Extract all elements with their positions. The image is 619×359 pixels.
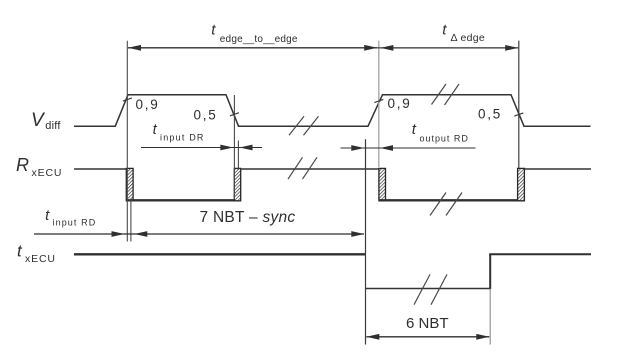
node crossing tick 0,5 second falling edge	[514, 113, 523, 116]
svg-text:t: t	[17, 242, 23, 261]
wire t_xECU rising edge	[489, 254, 491, 289]
wire t_input_DR dimension line	[141, 145, 262, 151]
node t_output_RD label	[412, 121, 469, 144]
node extension line at second falling edge (x=519)	[518, 41, 520, 168]
wire R_xECU low segment 2	[379, 199, 524, 201]
wire t_delta_edge dimension line	[380, 45, 518, 51]
node extension tick t_input_DR right (x=238)	[237, 141, 239, 171]
svg-text:output RD: output RD	[420, 134, 469, 144]
node break symbol t_xECU low segment	[414, 274, 447, 304]
node R_xECU transition bar 4	[518, 168, 525, 200]
svg-text:diff: diff	[45, 120, 61, 132]
node R_xECU transition bar 1	[126, 168, 133, 200]
wire 7_NBT_sync dimension line	[134, 231, 364, 237]
node crossing tick 0,5 first falling edge	[230, 113, 239, 116]
node break symbol V_diff low segment	[289, 116, 319, 135]
svg-text:R: R	[16, 155, 29, 175]
svg-text:Δ edge: Δ edge	[451, 32, 486, 44]
node extension line at second rising edge (x=379, gray)	[378, 41, 380, 167]
node extension line t_xECU rising edge (x=490)	[489, 289, 491, 345]
wire R_xECU high segment 1	[74, 168, 127, 170]
node extension line t_xECU falling edge (x=365)	[365, 139, 367, 344]
svg-text:input DR: input DR	[160, 133, 205, 143]
svg-text:t: t	[442, 22, 447, 39]
node t_xECU label	[17, 242, 56, 266]
node crossing tick 0,9 first rising edge	[123, 98, 132, 101]
wire 6_NBT dimension line	[366, 334, 489, 340]
svg-text:t: t	[412, 121, 417, 138]
node R_xECU label	[16, 155, 62, 179]
wire t_xECU high segment 2	[489, 253, 591, 255]
svg-text:t: t	[153, 122, 158, 138]
svg-text:xECU: xECU	[32, 167, 63, 179]
node break symbol R_xECU high segment 2	[288, 157, 317, 179]
wire t_xECU high segment 1	[74, 253, 366, 255]
node 7_NBT_sync label	[200, 209, 296, 226]
node break symbol V_diff high segment 2	[432, 84, 460, 105]
svg-text:0,5: 0,5	[478, 107, 502, 122]
svg-text:t: t	[45, 207, 50, 224]
node R_xECU transition bar 2	[234, 168, 240, 200]
node t_edge_to_edge label	[211, 22, 298, 46]
node break symbol R_xECU low segment 2	[430, 193, 462, 216]
node extension line at first falling edge (x=234)	[233, 95, 235, 199]
svg-text:0,5: 0,5	[194, 107, 218, 122]
svg-text:V: V	[31, 110, 46, 131]
wire R_xECU low segment 1	[127, 199, 241, 201]
svg-text:input RD: input RD	[53, 218, 97, 228]
node R_xECU transition bar 3	[379, 168, 386, 200]
node t_delta_edge label	[442, 22, 485, 45]
wire R_xECU high segment 3	[524, 168, 591, 170]
svg-text:edge__to__edge: edge__to__edge	[220, 34, 298, 45]
wire t_input_RD leader line	[34, 231, 364, 237]
svg-text:0,9: 0,9	[136, 97, 160, 112]
node crossing tick 0,9 second rising edge	[374, 99, 383, 102]
svg-text:t: t	[211, 22, 216, 39]
svg-text:0,9: 0,9	[388, 96, 412, 111]
node extension tick t_input_RD right (x=131)	[130, 199, 132, 242]
svg-text:6 NBT: 6 NBT	[406, 315, 449, 332]
svg-text:7 NBT – sync: 7 NBT – sync	[200, 209, 296, 226]
wire R_xECU high segment 2	[241, 168, 380, 170]
node V_diff label	[31, 110, 61, 132]
wire V_diff waveform	[74, 95, 591, 127]
node extension line at first rising edge (x=127)	[126, 41, 128, 242]
wire t_edge_to_edge dimension line	[128, 45, 380, 51]
wire t_output_RD dimension line	[341, 145, 476, 151]
wire t_xECU low segment	[366, 288, 491, 290]
svg-text:xECU: xECU	[25, 253, 56, 265]
node t_input_DR label	[153, 122, 205, 143]
node t_input_RD label	[45, 207, 96, 228]
